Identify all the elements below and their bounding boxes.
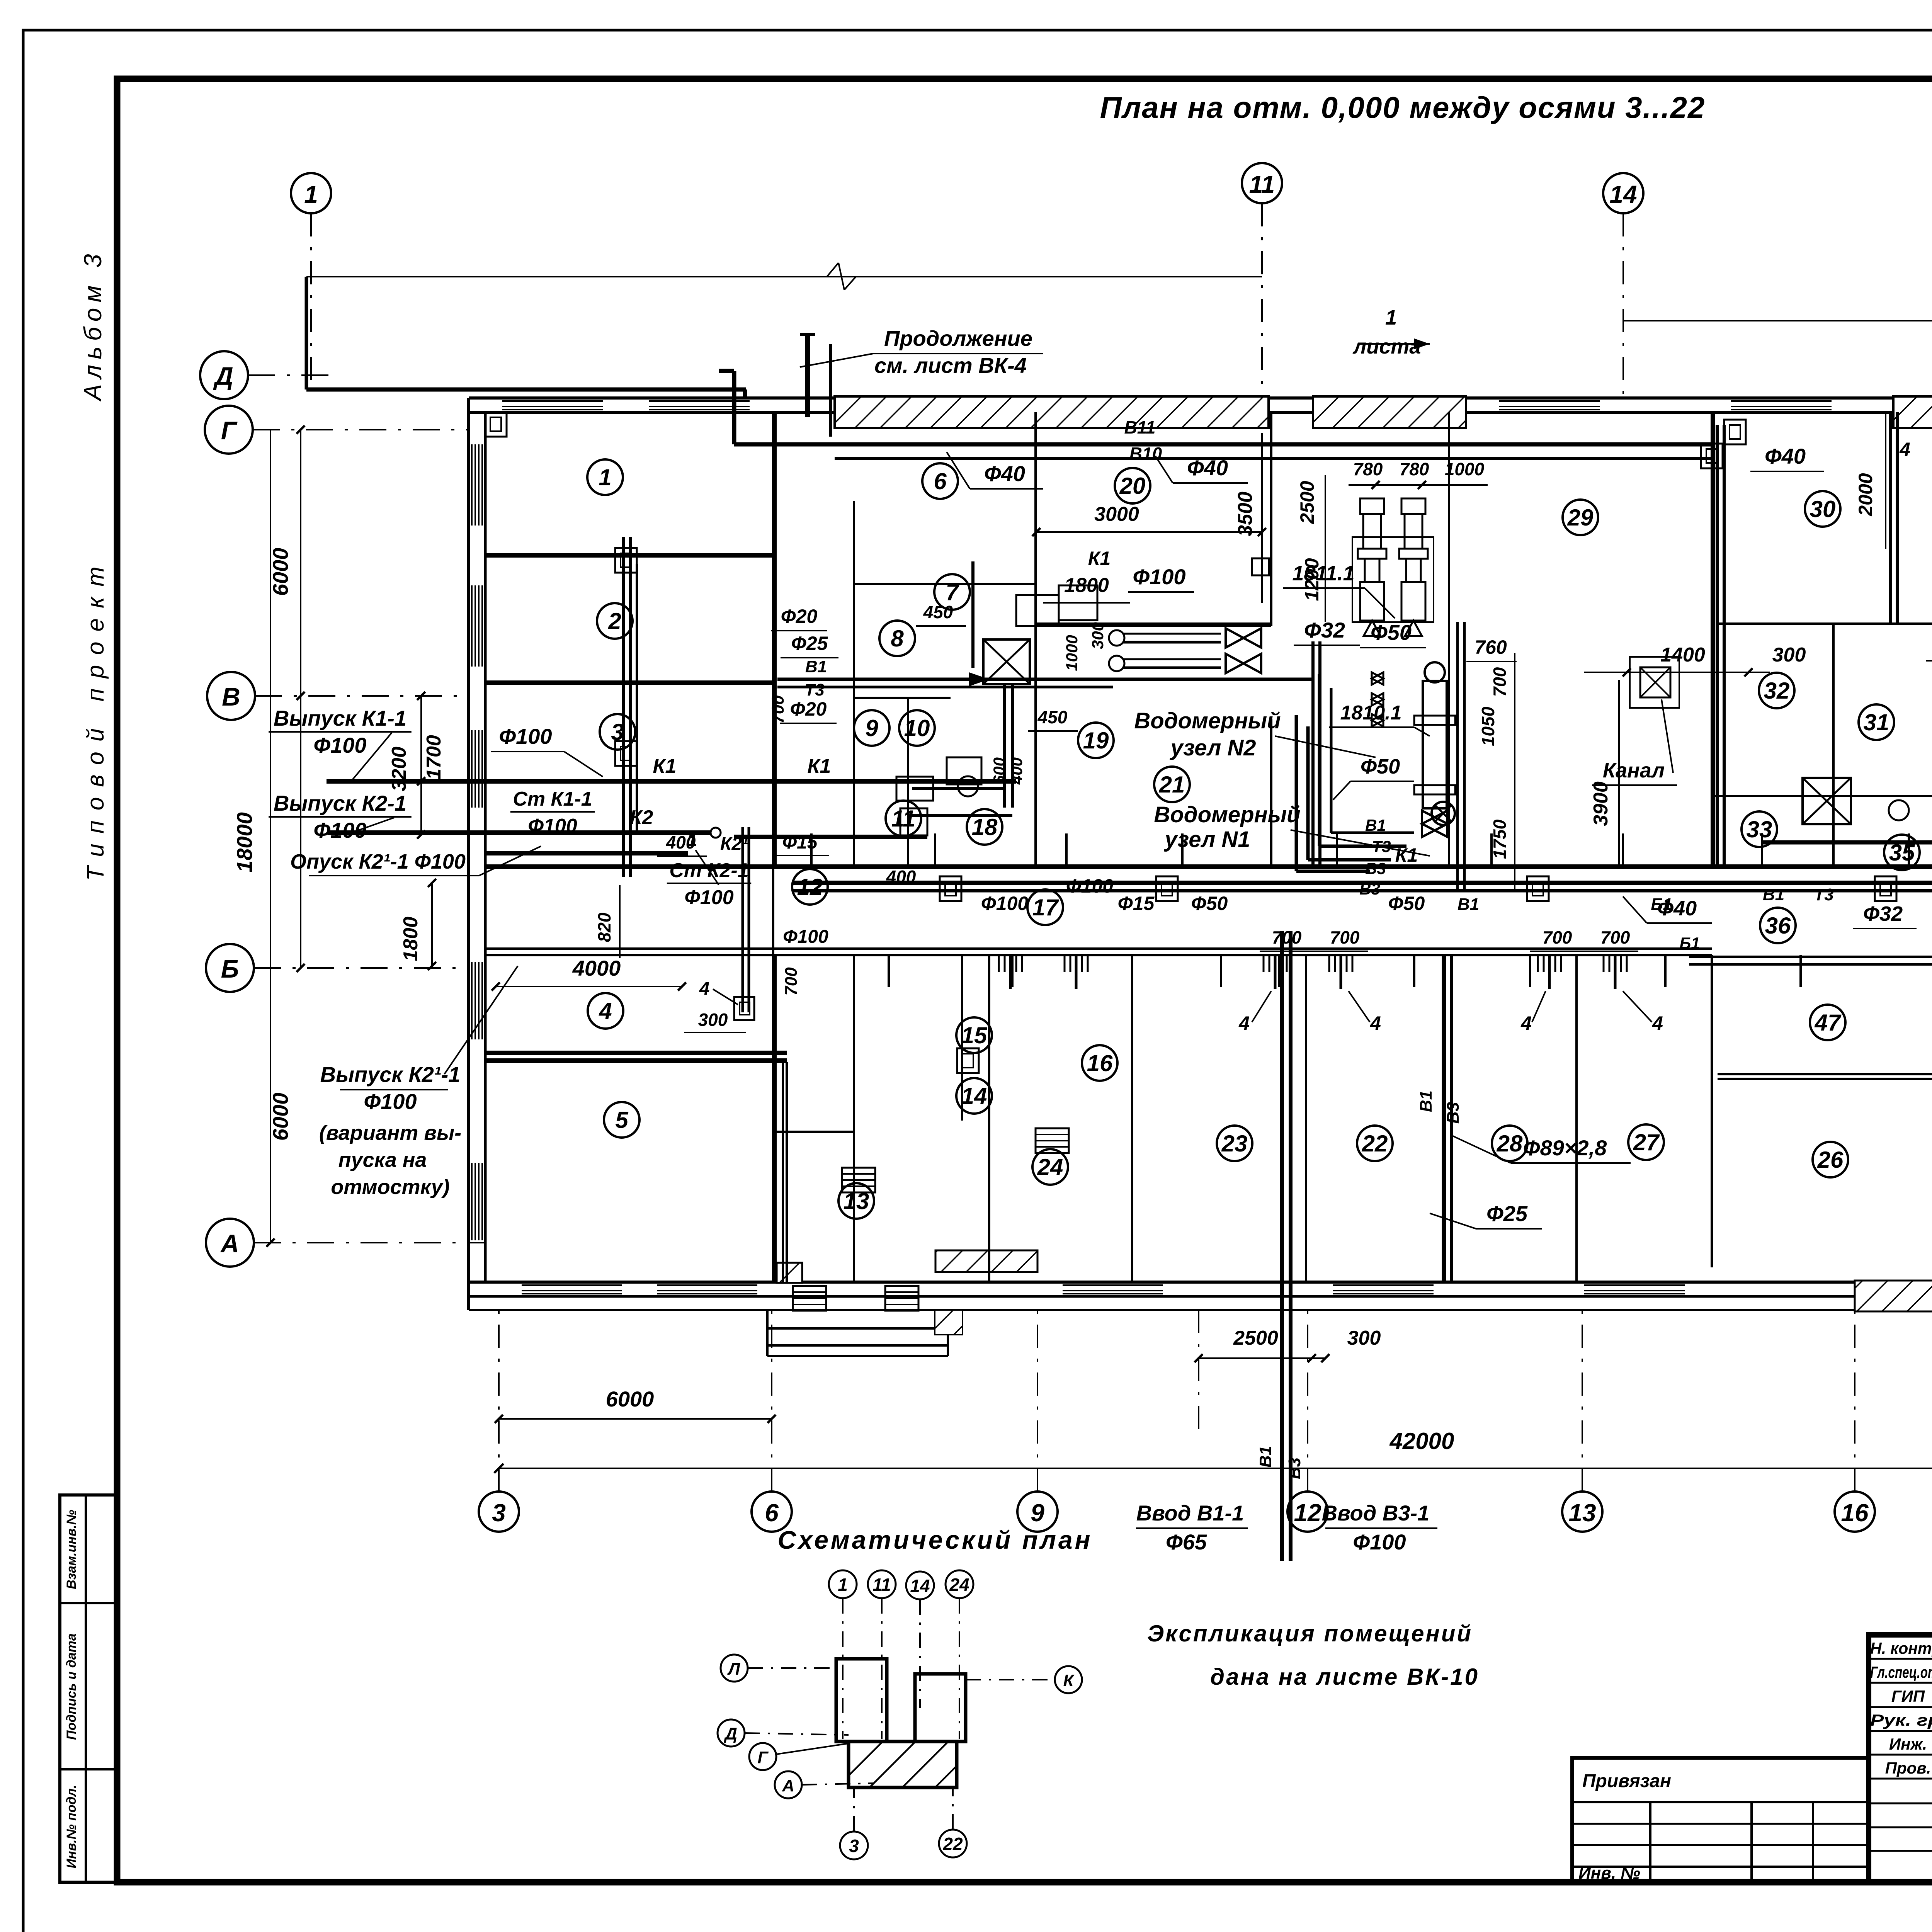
upper setback wall D	[306, 388, 746, 392]
schematic hatched block	[849, 1742, 957, 1787]
leader vypusk K2-1	[355, 818, 394, 832]
corridor main B1	[792, 881, 1932, 885]
svg-text:узел N2: узел N2	[1169, 735, 1256, 760]
svg-text:19: 19	[1083, 728, 1109, 753]
pipe arrow	[969, 672, 989, 686]
room circle 5	[604, 1102, 639, 1138]
axis A circle	[206, 1219, 254, 1267]
svg-text:42000: 42000	[1389, 1428, 1454, 1454]
svg-text:К1: К1	[808, 755, 831, 777]
svg-text:Подпись и дата: Подпись и дата	[64, 1633, 79, 1740]
svg-text:Гл.спец.отд: Гл.спец.отд	[1870, 1663, 1932, 1681]
svg-text:Ф20: Ф20	[781, 605, 818, 627]
svg-text:В1: В1	[1763, 885, 1784, 904]
svg-text:5: 5	[615, 1107, 629, 1133]
svg-text:Ф100: Ф100	[313, 733, 366, 757]
axis 9 leader	[1037, 1310, 1038, 1492]
svg-text:27: 27	[1633, 1129, 1660, 1155]
svg-text:1800: 1800	[1064, 574, 1109, 597]
top wall hatch C	[1893, 396, 1932, 428]
schematic axis A2	[775, 1771, 802, 1798]
svg-text:Ф50: Ф50	[1191, 893, 1228, 914]
svg-text:1050: 1050	[1478, 706, 1498, 746]
pipe vert pair right of uzel	[1456, 622, 1459, 889]
svg-text:Альбом 3: Альбом 3	[79, 248, 107, 402]
axis 14 leader	[1622, 213, 1624, 404]
svg-text:15: 15	[961, 1022, 988, 1048]
svg-text:26: 26	[1817, 1147, 1844, 1173]
svg-text:2000: 2000	[1855, 473, 1876, 516]
svg-text:Ф100: Ф100	[528, 815, 577, 837]
room circle 23	[1217, 1126, 1252, 1161]
svg-text:Канал: Канал	[1603, 759, 1665, 782]
svg-text:6000: 6000	[268, 548, 293, 596]
axis V circle	[207, 672, 255, 720]
bottom wall window 2	[657, 1284, 757, 1286]
svg-text:24: 24	[949, 1575, 969, 1595]
room circle 12	[792, 869, 828, 905]
pipe V11 top	[835, 442, 1712, 447]
svg-text:Ф100: Ф100	[1353, 1530, 1406, 1554]
room circle 3	[600, 714, 635, 750]
axis 12 circle	[1287, 1492, 1328, 1532]
corridor door stubs	[810, 833, 813, 866]
svg-text:Г: Г	[757, 1748, 769, 1767]
schematic axis 1	[829, 1570, 857, 1598]
svg-text:7: 7	[946, 579, 959, 605]
svg-text:6000: 6000	[268, 1093, 293, 1141]
corridor main T3	[792, 889, 1932, 893]
axis B circle	[206, 944, 254, 992]
schematic leader 1	[842, 1598, 844, 1739]
axis 11 leader	[1261, 203, 1263, 404]
canal dims	[1584, 672, 1770, 673]
room circle 6	[922, 463, 958, 499]
schematic axis G2	[749, 1743, 776, 1770]
pipe K1 midright	[1762, 840, 1932, 845]
svg-text:600: 600	[990, 757, 1008, 784]
svg-text:2500: 2500	[1233, 1327, 1278, 1349]
svg-text:6000: 6000	[606, 1387, 654, 1411]
schematic axis 24	[946, 1570, 973, 1598]
svg-text:Экспликация помещений: Экспликация помещений	[1147, 1621, 1473, 1646]
svg-text:4000: 4000	[572, 956, 621, 980]
room circle 47	[1810, 1005, 1845, 1040]
pipe B1 T3 to uzel2	[1311, 641, 1315, 866]
svg-text:760: 760	[1475, 636, 1507, 658]
room circle 8	[879, 621, 915, 656]
left wall window 4	[471, 962, 473, 1039]
top wall hatch B	[1313, 396, 1466, 428]
svg-text:400: 400	[886, 867, 916, 887]
room circle 27	[1628, 1124, 1664, 1160]
svg-text:Ф25: Ф25	[1486, 1201, 1528, 1226]
bottom wall	[469, 1281, 1932, 1284]
svg-text:В3: В3	[1285, 1458, 1304, 1479]
axis 16 leader	[1854, 1310, 1855, 1492]
schematic axis 22b	[939, 1830, 967, 1857]
room circle 36	[1760, 908, 1796, 943]
room circle 7	[934, 574, 970, 610]
svg-text:4: 4	[1652, 1012, 1663, 1034]
canal square	[1640, 667, 1670, 697]
room circle 14	[956, 1078, 992, 1114]
room circle 35	[1884, 835, 1920, 870]
axis 6 leader	[771, 1310, 772, 1492]
svg-text:В11: В11	[1124, 417, 1156, 437]
svg-text:К: К	[1063, 1671, 1075, 1690]
room circle 4	[588, 993, 623, 1029]
room circle 17	[1027, 889, 1063, 925]
interior walls	[485, 553, 773, 555]
svg-text:11: 11	[891, 806, 915, 832]
room circle 10	[899, 710, 935, 746]
equip pipe vert	[971, 561, 975, 668]
pipe B1 T3 left branch	[777, 678, 1314, 681]
svg-text:см. лист ВК-4: см. лист ВК-4	[874, 353, 1027, 378]
svg-text:3200: 3200	[388, 747, 410, 791]
pipe V1 inlet	[1280, 931, 1284, 1561]
svg-text:К2: К2	[630, 806, 653, 829]
svg-text:4: 4	[599, 998, 612, 1024]
bottom wall window 3	[1063, 1284, 1163, 1286]
axis 13 leader	[1582, 1310, 1583, 1492]
vvod dim line	[1199, 1357, 1325, 1359]
svg-text:Инж.: Инж.	[1889, 1735, 1927, 1753]
riser stack mid	[1716, 425, 1719, 866]
svg-text:Водомерный: Водомерный	[1154, 802, 1300, 827]
axis B leader	[254, 967, 469, 969]
svg-text:Рук. гр.: Рук. гр.	[1870, 1711, 1932, 1729]
riser room4	[734, 997, 754, 1020]
svg-text:3500: 3500	[1234, 492, 1257, 536]
equipment valves 1810.1	[1422, 811, 1447, 837]
svg-text:1810.1: 1810.1	[1340, 702, 1401, 724]
svg-text:Ф40: Ф40	[1765, 444, 1806, 468]
svg-text:Привязан: Привязан	[1582, 1771, 1671, 1791]
schematic axis K	[1055, 1666, 1082, 1693]
axis 12 leader	[1307, 1310, 1308, 1492]
equipment 1811.1 frame	[1352, 537, 1434, 622]
bottom wall window 1	[522, 1284, 622, 1286]
svg-text:450: 450	[923, 602, 953, 622]
svg-text:14: 14	[910, 1576, 930, 1596]
top wall window 4	[1731, 400, 1832, 402]
break mark	[827, 263, 838, 277]
svg-text:1700: 1700	[423, 735, 445, 780]
svg-text:План на отм. 0,000 между: План на отм. 0,000 между осями 3...22	[1100, 90, 1706, 124]
left dim 1800	[431, 883, 433, 966]
pipe V10 top	[835, 457, 1712, 460]
svg-text:1400: 1400	[1660, 644, 1705, 666]
room circle 9	[854, 710, 889, 746]
svg-text:Ф40: Ф40	[1187, 456, 1228, 480]
room circle 15	[956, 1017, 992, 1053]
axis D leader	[248, 374, 340, 376]
svg-text:1000: 1000	[1063, 635, 1081, 671]
svg-text:узел N1: узел N1	[1163, 827, 1250, 852]
svg-text:листа: листа	[1352, 335, 1421, 358]
svg-text:1800: 1800	[400, 917, 422, 961]
bottom wall hatch C	[1855, 1281, 1932, 1311]
room circle 24	[1032, 1149, 1068, 1185]
stair hatch mark	[935, 1310, 963, 1335]
schematic axis L	[721, 1655, 748, 1682]
schematic leader 24	[959, 1598, 960, 1739]
room circle 16	[1082, 1045, 1117, 1081]
schematic axis K line	[966, 1679, 1055, 1680]
svg-text:3: 3	[492, 1499, 506, 1527]
riser stack 30	[1889, 412, 1892, 624]
svg-text:В1: В1	[1365, 816, 1386, 834]
schematic axis 11	[868, 1570, 896, 1598]
room circle 28	[1492, 1126, 1527, 1161]
svg-text:1811.1: 1811.1	[1292, 562, 1354, 585]
svg-text:3000: 3000	[1094, 503, 1139, 526]
svg-text:820: 820	[594, 912, 614, 942]
svg-text:Выпуск К2¹-1: Выпуск К2¹-1	[320, 1062, 461, 1087]
svg-text:29: 29	[1567, 505, 1594, 531]
svg-text:700: 700	[1490, 667, 1510, 697]
schematic axis D2 line	[745, 1733, 849, 1735]
svg-text:300: 300	[1772, 644, 1806, 666]
dim 3000	[1036, 531, 1262, 533]
svg-text:20: 20	[1119, 473, 1146, 499]
svg-text:(вариант вы-: (вариант вы-	[319, 1121, 461, 1145]
dim 700 700 b	[1530, 951, 1638, 952]
bottom wall window 4	[1333, 1284, 1434, 1286]
pipe elbow nest 2	[1306, 726, 1310, 860]
room circle 21	[1154, 767, 1190, 802]
svg-text:К1: К1	[1088, 548, 1111, 569]
dim 6000 left line	[499, 1418, 772, 1420]
svg-text:1000: 1000	[1445, 459, 1485, 479]
svg-text:Ф100: Ф100	[1133, 565, 1185, 589]
svg-text:3900: 3900	[1590, 781, 1612, 826]
svg-text:6: 6	[934, 468, 947, 494]
svg-text:дана на листе ВК-: дана на листе ВК-10	[1210, 1664, 1479, 1690]
svg-text:2: 2	[608, 608, 621, 634]
leader St K2-1	[696, 850, 719, 885]
riser stack K1-1	[622, 537, 625, 877]
svg-text:1: 1	[599, 464, 611, 490]
svg-text:300: 300	[1088, 622, 1107, 649]
svg-text:В: В	[222, 682, 240, 711]
room circle 1	[587, 459, 623, 495]
svg-text:В1: В1	[805, 657, 827, 676]
equip box2	[1016, 595, 1059, 626]
svg-text:16: 16	[1087, 1050, 1113, 1076]
svg-text:Типовой проект: Типовой проект	[82, 556, 109, 881]
canal dim 3900	[1618, 680, 1620, 866]
svg-text:13: 13	[844, 1188, 869, 1214]
svg-text:9: 9	[1031, 1499, 1044, 1527]
left dim chain2	[420, 696, 422, 835]
svg-text:4: 4	[1899, 439, 1910, 460]
axis V leader	[255, 695, 469, 697]
svg-text:А: А	[220, 1229, 239, 1258]
svg-text:Н. контр.: Н. контр.	[1870, 1639, 1932, 1657]
svg-text:ГИП: ГИП	[1891, 1687, 1925, 1705]
pipe elbow nest 4	[1330, 688, 1333, 833]
svg-text:Ф65: Ф65	[1166, 1530, 1207, 1554]
schematic block K	[915, 1674, 966, 1742]
svg-text:23: 23	[1221, 1131, 1248, 1156]
bottom wall hatch B	[935, 1250, 1037, 1272]
axis 13 circle	[1562, 1492, 1602, 1532]
equip shower box	[983, 639, 1030, 684]
room circle 20	[1115, 468, 1150, 503]
svg-text:Ф89×2,8: Ф89×2,8	[1523, 1136, 1607, 1160]
vvod dashline	[1198, 1310, 1199, 1430]
svg-text:300: 300	[698, 1010, 728, 1030]
svg-text:14: 14	[1609, 180, 1637, 208]
axis 16 circle	[1835, 1492, 1875, 1532]
svg-text:В10: В10	[1129, 444, 1162, 464]
axis 14 circle	[1603, 173, 1643, 213]
pipe elbow nest 3	[1318, 674, 1321, 846]
equip elbow	[912, 787, 1005, 790]
room circle 26	[1813, 1142, 1848, 1177]
svg-text:700: 700	[1543, 927, 1572, 947]
dim 1800	[1043, 602, 1130, 604]
svg-text:47: 47	[1815, 1010, 1842, 1036]
svg-text:Б1: Б1	[1679, 934, 1700, 952]
svg-text:отмостку): отмостку)	[331, 1175, 449, 1199]
axis 6 circle	[752, 1492, 792, 1532]
svg-text:Ф25: Ф25	[791, 633, 828, 654]
axis 3 circle	[479, 1492, 519, 1532]
svg-text:Инв. №: Инв. №	[1578, 1864, 1640, 1883]
bottom chain line	[499, 1468, 1932, 1469]
svg-text:31: 31	[1864, 709, 1889, 735]
top wall window 3	[1499, 400, 1600, 402]
valve stack	[1372, 672, 1383, 726]
svg-text:22: 22	[1362, 1131, 1388, 1156]
svg-text:1: 1	[1385, 306, 1397, 329]
riser stack left2	[742, 827, 744, 1012]
svg-text:Ф32: Ф32	[1863, 902, 1903, 925]
room circle 29	[1563, 500, 1598, 535]
svg-text:1: 1	[838, 1575, 848, 1595]
svg-text:2500: 2500	[1296, 481, 1318, 524]
svg-text:Продолжение: Продолжение	[884, 326, 1032, 350]
svg-text:780: 780	[1353, 459, 1383, 479]
svg-text:700: 700	[769, 695, 787, 724]
schematic axis A2 line	[802, 1783, 873, 1785]
axis 1 leader	[310, 213, 312, 386]
svg-text:пуска на: пуска на	[338, 1148, 427, 1172]
equip box3	[947, 757, 981, 784]
svg-text:17: 17	[1032, 895, 1059, 920]
axis 11 circle	[1242, 163, 1282, 203]
dim 780 780 1000	[1349, 484, 1488, 486]
room circle 11	[886, 801, 921, 836]
svg-text:В1: В1	[1458, 895, 1479, 914]
pipe V11 step	[734, 442, 835, 447]
room circle 31	[1859, 704, 1894, 740]
svg-text:3: 3	[849, 1836, 859, 1856]
svg-text:8: 8	[891, 626, 904, 651]
schematic axis 3b	[840, 1832, 868, 1859]
top chain line	[306, 276, 1262, 277]
svg-text:1: 1	[687, 830, 697, 850]
dim 700 700 a	[1260, 951, 1368, 952]
svg-text:1: 1	[304, 180, 318, 208]
axis G circle	[205, 406, 253, 454]
svg-text:Ввод В3-1: Ввод В3-1	[1322, 1501, 1430, 1525]
svg-text:В1: В1	[1256, 1446, 1275, 1468]
room circle 13	[838, 1183, 874, 1219]
dim 42000 line	[494, 1464, 503, 1473]
svg-text:В3: В3	[1365, 859, 1386, 878]
svg-text:4: 4	[1520, 1012, 1532, 1034]
svg-text:4: 4	[1370, 1012, 1381, 1034]
svg-text:К1: К1	[653, 755, 677, 777]
top wall	[469, 396, 1932, 400]
svg-text:Водомерный: Водомерный	[1134, 708, 1281, 733]
svg-text:11: 11	[872, 1575, 891, 1595]
svg-text:700: 700	[782, 967, 801, 996]
svg-text:24: 24	[1037, 1154, 1063, 1180]
svg-text:Пров.: Пров.	[1885, 1759, 1931, 1777]
axis 3 leader	[498, 1310, 500, 1492]
schematic axis L line	[748, 1667, 836, 1669]
svg-text:Ф100: Ф100	[783, 927, 828, 947]
room circle 30	[1805, 491, 1840, 527]
pipe VK4 stub	[805, 336, 810, 417]
svg-text:Б: Б	[221, 954, 239, 983]
svg-text:32: 32	[1764, 678, 1790, 704]
svg-text:В1: В1	[1417, 1090, 1435, 1112]
svg-text:13: 13	[1568, 1499, 1596, 1527]
svg-text:10: 10	[904, 715, 930, 741]
svg-text:14: 14	[961, 1083, 987, 1109]
left dim chain	[270, 430, 271, 1243]
svg-text:Ф100: Ф100	[499, 724, 552, 748]
schematic axis 22b line	[952, 1787, 954, 1830]
svg-text:18000: 18000	[232, 812, 257, 872]
svg-text:9: 9	[865, 715, 878, 741]
room circle 2	[597, 603, 633, 639]
margin boxes	[60, 1495, 117, 1882]
schematic axis D2	[718, 1719, 745, 1747]
pipe B1 vert	[1442, 955, 1446, 1282]
equipment 1811.1 filters	[1360, 498, 1384, 514]
axis D circle	[200, 351, 248, 399]
room circle 19	[1078, 723, 1114, 758]
equip box 33	[1803, 778, 1851, 824]
pump circle	[1432, 802, 1455, 825]
pipe K2 left main	[328, 830, 711, 835]
left wall window 3	[471, 730, 473, 808]
svg-text:Ввод В1-1: Ввод В1-1	[1136, 1501, 1244, 1525]
svg-text:450: 450	[1037, 707, 1068, 727]
svg-text:Ст К1-1: Ст К1-1	[513, 788, 592, 810]
svg-text:Т3: Т3	[1814, 885, 1833, 904]
svg-text:Ф100: Ф100	[1066, 875, 1114, 897]
svg-text:Выпуск К2-1: Выпуск К2-1	[274, 791, 406, 815]
svg-text:Взам.инв.№: Взам.инв.№	[64, 1510, 79, 1589]
axis 1 circle	[291, 173, 331, 213]
axis 9 circle	[1017, 1492, 1058, 1532]
dim 4000	[496, 986, 682, 987]
privyazan table	[1572, 1758, 1869, 1882]
svg-text:700: 700	[1272, 927, 1302, 947]
title block grid	[1869, 1635, 1932, 1882]
room circle 32	[1759, 673, 1794, 708]
bottom wall window 5	[1584, 1284, 1685, 1286]
